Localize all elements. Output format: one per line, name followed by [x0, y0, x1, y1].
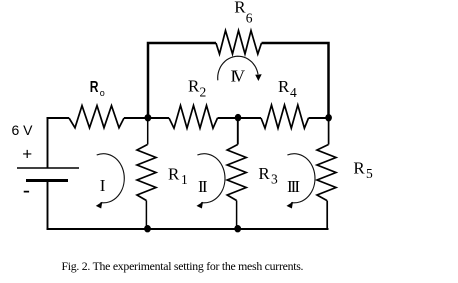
node junction dot A (top of R1): [145, 114, 152, 121]
mesh current arrow IV: [218, 56, 262, 81]
resistor R4 label: [278, 77, 297, 100]
svg-text:1: 1: [181, 172, 188, 187]
wire left rail lower segment: [47, 181, 49, 230]
wire middle between R2 and R4: [218, 117, 262, 119]
svg-text:2: 2: [200, 84, 207, 99]
svg-text:o: o: [100, 88, 105, 98]
svg-text:R: R: [258, 164, 270, 183]
resistor R5 label: [353, 159, 373, 182]
resistor R4: [261, 105, 309, 128]
wire top loop right (thick): [262, 43, 329, 117]
svg-text:R: R: [90, 77, 99, 95]
resistor R5: [317, 145, 336, 201]
svg-text:I: I: [100, 176, 106, 195]
resistor R3 label: [258, 164, 278, 186]
battery V1 negative plate: [26, 179, 68, 182]
wire R3 top stub: [237, 118, 239, 145]
svg-text:R: R: [278, 77, 290, 96]
wire R5 bottom stub: [326, 201, 328, 230]
svg-text:III: III: [287, 177, 300, 196]
node junction dot C (top of R5): [325, 114, 332, 121]
mesh current arrow III: [287, 154, 315, 209]
svg-text:R: R: [353, 159, 365, 178]
svg-text:6: 6: [246, 11, 253, 26]
wire middle left stub: [47, 117, 70, 119]
wire middle between Ro and R2: [124, 117, 169, 119]
svg-text:6 V: 6 V: [12, 122, 34, 138]
wire left rail upper segment: [47, 117, 49, 168]
svg-text:+: +: [22, 144, 32, 163]
wire R1 top stub: [147, 118, 149, 145]
node junction dot E (bottom of R3): [234, 225, 241, 232]
node junction dot D (bottom of R1): [144, 225, 151, 232]
wire R5 top stub: [328, 118, 330, 145]
wire top loop left (thick): [148, 43, 216, 117]
resistor Ro: [69, 106, 124, 128]
resistor R1 label: [168, 164, 188, 187]
resistor R3: [227, 145, 246, 201]
node junction dot B (top of R3): [235, 114, 242, 121]
wire R1 bottom stub: [145, 201, 147, 230]
resistor Ro label: [90, 77, 105, 98]
svg-text:-: -: [23, 178, 30, 203]
wire R3 bottom stub: [236, 201, 238, 230]
svg-text:Fig. 2. The experimental setti: Fig. 2. The experimental setting for the…: [62, 259, 304, 273]
resistor R1: [137, 145, 156, 201]
resistor R6: [216, 31, 262, 54]
mesh current arrow I: [96, 154, 124, 209]
svg-text:4: 4: [290, 85, 297, 100]
wire bottom rail: [47, 228, 329, 230]
svg-text:R: R: [168, 164, 180, 183]
svg-text:5: 5: [366, 166, 373, 181]
svg-text:R: R: [234, 0, 246, 17]
resistor R2: [169, 106, 218, 129]
svg-text:3: 3: [271, 172, 278, 187]
resistor R2 label: [188, 76, 206, 99]
resistor R6 label: [234, 0, 253, 26]
wire middle right stub to right rail: [309, 117, 330, 119]
battery V1 positive plate: [17, 167, 79, 169]
mesh current arrow II: [197, 154, 225, 209]
svg-text:IV: IV: [231, 66, 246, 85]
svg-text:R: R: [188, 76, 200, 95]
svg-text:II: II: [198, 177, 208, 196]
